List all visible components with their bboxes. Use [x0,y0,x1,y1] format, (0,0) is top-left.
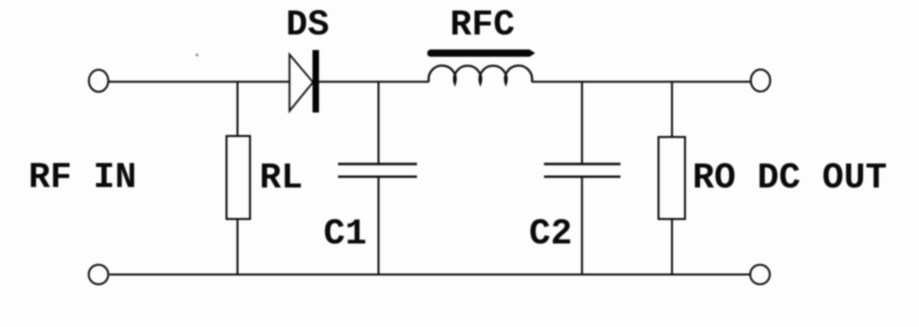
svg-text:C1: C1 [324,214,367,255]
svg-text:RF IN: RF IN [29,157,137,198]
svg-text:C2: C2 [529,214,572,255]
svg-text:RFC: RFC [450,5,515,46]
svg-text:RL: RL [260,158,303,199]
svg-text:RO DC OUT: RO DC OUT [693,158,887,199]
svg-text:DS: DS [286,5,329,46]
